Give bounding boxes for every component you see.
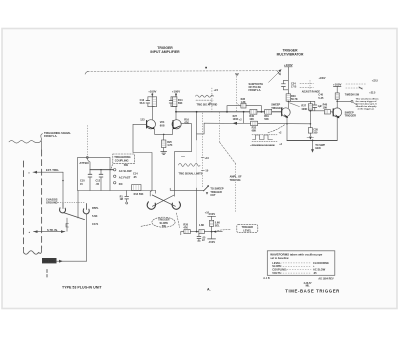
bracket mark xyxy=(66,224,69,228)
title: trigger multivibrator xyxy=(277,49,304,57)
long emitter line xyxy=(204,122,310,125)
wire from atten box down xyxy=(77,191,79,219)
svg-text:INPUT AMPLIFIER: INPUT AMPLIFIER xyxy=(150,50,180,54)
coupling switch contacts xyxy=(114,169,116,171)
V1 base route down to jack xyxy=(133,124,152,196)
hanging cap xyxy=(198,234,200,237)
linkage dashes from right jack xyxy=(176,213,179,228)
base line to T4 xyxy=(325,111,333,112)
svg-text:SW: SW xyxy=(124,163,129,167)
vertical to emitter line xyxy=(309,111,311,124)
output to sweep terminal xyxy=(336,101,338,103)
parallel resistor R37 xyxy=(309,101,311,103)
transistor T4 sweep trigger xyxy=(333,108,342,117)
svg-text:-10: -10 xyxy=(205,170,209,173)
inline resistor on riser xyxy=(286,94,290,101)
chassis dashed line right xyxy=(41,141,43,150)
dotted leader chassis ground xyxy=(58,202,84,204)
svg-text:SEL: SEL xyxy=(215,225,220,228)
svg-text:17 B: 17 B xyxy=(291,86,296,89)
dotted line to level xyxy=(219,112,221,142)
jack labels xyxy=(92,206,99,226)
dashed separator line xyxy=(88,70,278,73)
lower comp + arrow to rail xyxy=(309,124,311,128)
inline resistor B xyxy=(199,230,204,234)
svg-text:CKT: CKT xyxy=(210,194,216,197)
svg-text:LEVEL: LEVEL xyxy=(243,229,252,232)
svg-text:set to baseline:: set to baseline: xyxy=(270,256,289,260)
svg-text:-150V: -150V xyxy=(208,212,215,216)
transistor V1 xyxy=(146,120,155,129)
coupling output line xyxy=(78,190,156,192)
svg-text:+22.5: +22.5 xyxy=(369,91,376,94)
svg-text:GROUND: GROUND xyxy=(46,201,58,205)
bypass branch over bus xyxy=(227,106,261,112)
ext trig black box xyxy=(42,258,57,263)
svg-text:TRIGGERING: TRIGGERING xyxy=(114,155,130,159)
jack J1 xyxy=(62,203,64,209)
left arrowhead on emitter line xyxy=(232,122,237,125)
dashed line tail xyxy=(85,71,88,74)
svg-text:COUPLING: COUPLING xyxy=(115,158,129,162)
bypass resistor xyxy=(241,103,246,108)
multivib collector riser xyxy=(287,67,289,108)
svg-text:CLOCKWISE: CLOCKWISE xyxy=(313,261,329,265)
svg-text:SW: SW xyxy=(162,225,167,228)
svg-text:TYPE 53 PLUG-IN UNIT: TYPE 53 PLUG-IN UNIT xyxy=(62,285,102,289)
svg-text:56.7K: 56.7K xyxy=(291,98,298,101)
svg-text:5-25: 5-25 xyxy=(318,97,324,100)
cursive waveform sketch xyxy=(179,163,201,166)
svg-text:TIME/DIV SW: TIME/DIV SW xyxy=(345,94,360,96)
center vertical from bus to level line xyxy=(196,112,198,140)
svg-text:R5PL: R5PL xyxy=(92,206,99,210)
leader arc to emitter xyxy=(268,124,285,132)
stub link xyxy=(197,123,205,134)
atten output wire xyxy=(90,169,113,171)
svg-text:TIME-BASE TRIGGER: TIME-BASE TRIGGER xyxy=(285,288,340,293)
ext trig arrow wire xyxy=(33,171,63,173)
jack left xyxy=(147,202,155,209)
chassis dashed line left xyxy=(23,161,25,248)
slope switch label ellipse xyxy=(140,217,175,228)
svg-text:WAVEFORMS taken with oscill: WAVEFORMS taken with oscilloscope xyxy=(270,253,322,257)
output drop with arrow xyxy=(312,140,314,142)
svg-text:GEN: GEN xyxy=(315,147,321,150)
tiny mark M on dashed line xyxy=(205,67,207,69)
crossed output jacks xyxy=(152,195,175,206)
svg-text:100K: 100K xyxy=(233,118,239,121)
slope switch blade xyxy=(204,186,208,191)
svg-text:100: 100 xyxy=(313,132,318,135)
jack J2 xyxy=(86,204,88,210)
cathode resistor R25 xyxy=(163,134,165,140)
svg-text:TRIGGER: TRIGGER xyxy=(271,107,283,110)
transistor V2 xyxy=(172,120,181,129)
tick +10 xyxy=(201,157,204,159)
svg-text:A-1 B: A-1 B xyxy=(263,277,270,280)
svg-text:ADJUST RANGE: ADJUST RANGE xyxy=(302,91,321,94)
svg-text:47K: 47K xyxy=(183,226,188,229)
svg-text:.05: .05 xyxy=(133,176,137,179)
svg-text:1.8K: 1.8K xyxy=(199,224,204,227)
label V24 xyxy=(160,120,165,127)
resistor R xyxy=(210,220,214,226)
svg-text:+24: +24 xyxy=(214,89,219,92)
T4 collector xyxy=(336,86,338,108)
jack right xyxy=(172,202,180,209)
emitter rail xyxy=(155,129,173,134)
node line xyxy=(309,110,325,112)
pot bottom to -150 xyxy=(211,232,213,239)
+100V terminal T4 xyxy=(333,83,342,87)
trigger level label xyxy=(237,225,258,233)
multivib emitter drop xyxy=(286,118,288,141)
dotted line upper right xyxy=(236,74,238,112)
note text block xyxy=(356,97,380,110)
svg-text:EXT. TRIG.: EXT. TRIG. xyxy=(43,259,55,263)
svg-text:56.8: 56.8 xyxy=(140,102,145,105)
svg-text:AG 1954 REV: AG 1954 REV xyxy=(318,277,334,280)
svg-text:4.7K: 4.7K xyxy=(167,144,172,147)
svg-text:EXT. TRIG.: EXT. TRIG. xyxy=(46,168,59,172)
grid resistor branch xyxy=(126,191,128,197)
svg-text:AC FAST: AC FAST xyxy=(119,176,131,180)
main bus xyxy=(176,111,281,113)
collector risers xyxy=(151,107,153,120)
svg-text:56K: 56K xyxy=(264,118,269,121)
slope output line xyxy=(170,189,203,191)
svg-text:123: 123 xyxy=(140,118,145,121)
svg-text:COUPLING:: COUPLING: xyxy=(272,268,287,272)
transistor T3 multivib xyxy=(281,108,290,117)
bus inline resistor R31 xyxy=(265,109,272,114)
svg-text:TRIGGER: TRIGGER xyxy=(345,115,357,118)
svg-text:C471: C471 xyxy=(92,222,99,226)
svg-text:at the trigger pt.: at the trigger pt. xyxy=(358,107,375,110)
shield dotted line into atten xyxy=(86,126,88,158)
title: trigger input amplifier xyxy=(150,46,180,54)
svg-text:S.TR. IN.: S.TR. IN. xyxy=(47,228,58,232)
level line xyxy=(181,231,223,233)
input cable squiggle xyxy=(9,134,43,143)
svg-text:R14 56K: R14 56K xyxy=(134,193,144,196)
bottom small note xyxy=(304,283,313,288)
ground xyxy=(161,152,167,155)
svg-text:VOLTS:: VOLTS: xyxy=(272,271,281,275)
svg-text:A.: A. xyxy=(207,288,211,292)
svg-text:+100V: +100V xyxy=(284,63,293,67)
label amplitude xyxy=(230,176,242,182)
svg-text:TRIG SIGNAL LIMITS: TRIG SIGNAL LIMITS xyxy=(179,172,203,175)
waveform annotation small dash xyxy=(181,156,184,158)
svg-text:TRIG SIG: TRIG SIG xyxy=(230,179,241,182)
square wave annotation xyxy=(252,135,277,142)
svg-text:+10: +10 xyxy=(205,157,210,160)
+100V supply label B xyxy=(172,89,180,93)
leader to adj text xyxy=(290,103,300,107)
right-side switch table xyxy=(345,79,379,96)
svg-text:AC SLOW: AC SLOW xyxy=(119,169,132,173)
chassis bottom squiggle xyxy=(24,248,42,254)
svg-text:+22.5: +22.5 xyxy=(372,79,379,82)
bus inline resistor R30 xyxy=(250,109,257,114)
svg-text:AC SLOW: AC SLOW xyxy=(313,268,326,272)
svg-text:.05: .05 xyxy=(96,183,100,186)
svg-text:± TRIGGERING LEVEL RANGE: ± TRIGGERING LEVEL RANGE xyxy=(250,144,275,147)
svg-text:56K: 56K xyxy=(178,102,183,105)
label: triggering signal from xyxy=(44,131,71,138)
legend box xyxy=(267,251,335,275)
slope switch arrow xyxy=(206,191,208,195)
diagonal strap between jacks xyxy=(64,213,85,220)
inline resistor R32 xyxy=(251,121,258,125)
svg-text:+100V: +100V xyxy=(319,77,326,80)
svg-text:MULTIVIBRATOR: MULTIVIBRATOR xyxy=(277,52,304,56)
svg-text:10K: 10K xyxy=(323,106,328,109)
drop from bus to emitter line xyxy=(243,112,245,123)
atten inner wires xyxy=(87,158,90,190)
RC pair R13 C13 xyxy=(148,97,155,107)
pulse source label with arrow xyxy=(249,83,264,92)
svg-text:MIL: MIL xyxy=(306,286,311,288)
RC pair R14b xyxy=(171,97,177,107)
V2 plate loop xyxy=(174,124,191,197)
svg-text:ATTEN: ATTEN xyxy=(79,161,88,165)
label R16 xyxy=(184,119,189,125)
attenuator box xyxy=(78,157,110,190)
page mark 2 xyxy=(46,270,48,278)
svg-text:1.8K: 1.8K xyxy=(241,101,246,104)
tick -10 xyxy=(201,169,204,171)
svg-text:SLOPE:: SLOPE: xyxy=(272,264,282,268)
capacitor C12 xyxy=(99,174,103,177)
svg-text:5.6K: 5.6K xyxy=(92,214,98,218)
svg-text:FROM V.A.: FROM V.A. xyxy=(44,134,57,138)
svg-text:6U8: 6U8 xyxy=(160,123,165,127)
label chassis ground xyxy=(46,198,58,205)
svg-text:FROM V.A.: FROM V.A. xyxy=(249,89,262,92)
lower arrow wire xyxy=(34,231,66,233)
labels right of riser xyxy=(291,82,298,101)
wire from ext trig box xyxy=(57,260,87,262)
svg-text:1M: 1M xyxy=(120,198,123,201)
svg-text:+100V: +100V xyxy=(333,83,342,87)
series coupling box C14 xyxy=(132,185,141,191)
leader from dotted to bypass xyxy=(236,103,240,106)
+100V supply label A xyxy=(148,89,156,93)
svg-text:47K: 47K xyxy=(184,122,189,125)
wire down to jack 1 xyxy=(62,172,64,203)
svg-text:68K: 68K xyxy=(252,129,257,132)
pot wiper arrow xyxy=(213,231,216,233)
svg-text:-150V: -150V xyxy=(208,240,215,244)
dotted signal line center xyxy=(202,113,204,187)
multivib +100V terminal xyxy=(284,63,293,67)
label to sweep gen xyxy=(210,188,223,197)
svg-text:.05: .05 xyxy=(313,271,317,275)
capacitor C10 xyxy=(88,174,92,177)
svg-text:LEVEL:: LEVEL: xyxy=(272,261,281,265)
upper waveform sketch xyxy=(196,95,214,97)
svg-text:100K: 100K xyxy=(301,108,307,111)
T4 emitter xyxy=(336,117,338,140)
label triggering coupling switch xyxy=(111,154,135,170)
T4 collector resistor xyxy=(335,93,339,99)
coupling line to sweep trigger xyxy=(288,101,315,104)
wire below jack2 down to ext trig line xyxy=(86,214,88,261)
bypass loop xyxy=(283,80,288,89)
dashed line end arrow xyxy=(277,71,280,75)
label sweep trigger left xyxy=(271,104,283,110)
inline resistor A xyxy=(184,230,190,234)
wire below jack1 xyxy=(66,218,68,231)
svg-text:-10: -10 xyxy=(208,103,212,106)
svg-text:DC: DC xyxy=(119,182,123,186)
dotted vertical upper xyxy=(211,88,213,111)
output rail xyxy=(287,139,337,141)
svg-text:10K: 10K xyxy=(249,118,254,121)
